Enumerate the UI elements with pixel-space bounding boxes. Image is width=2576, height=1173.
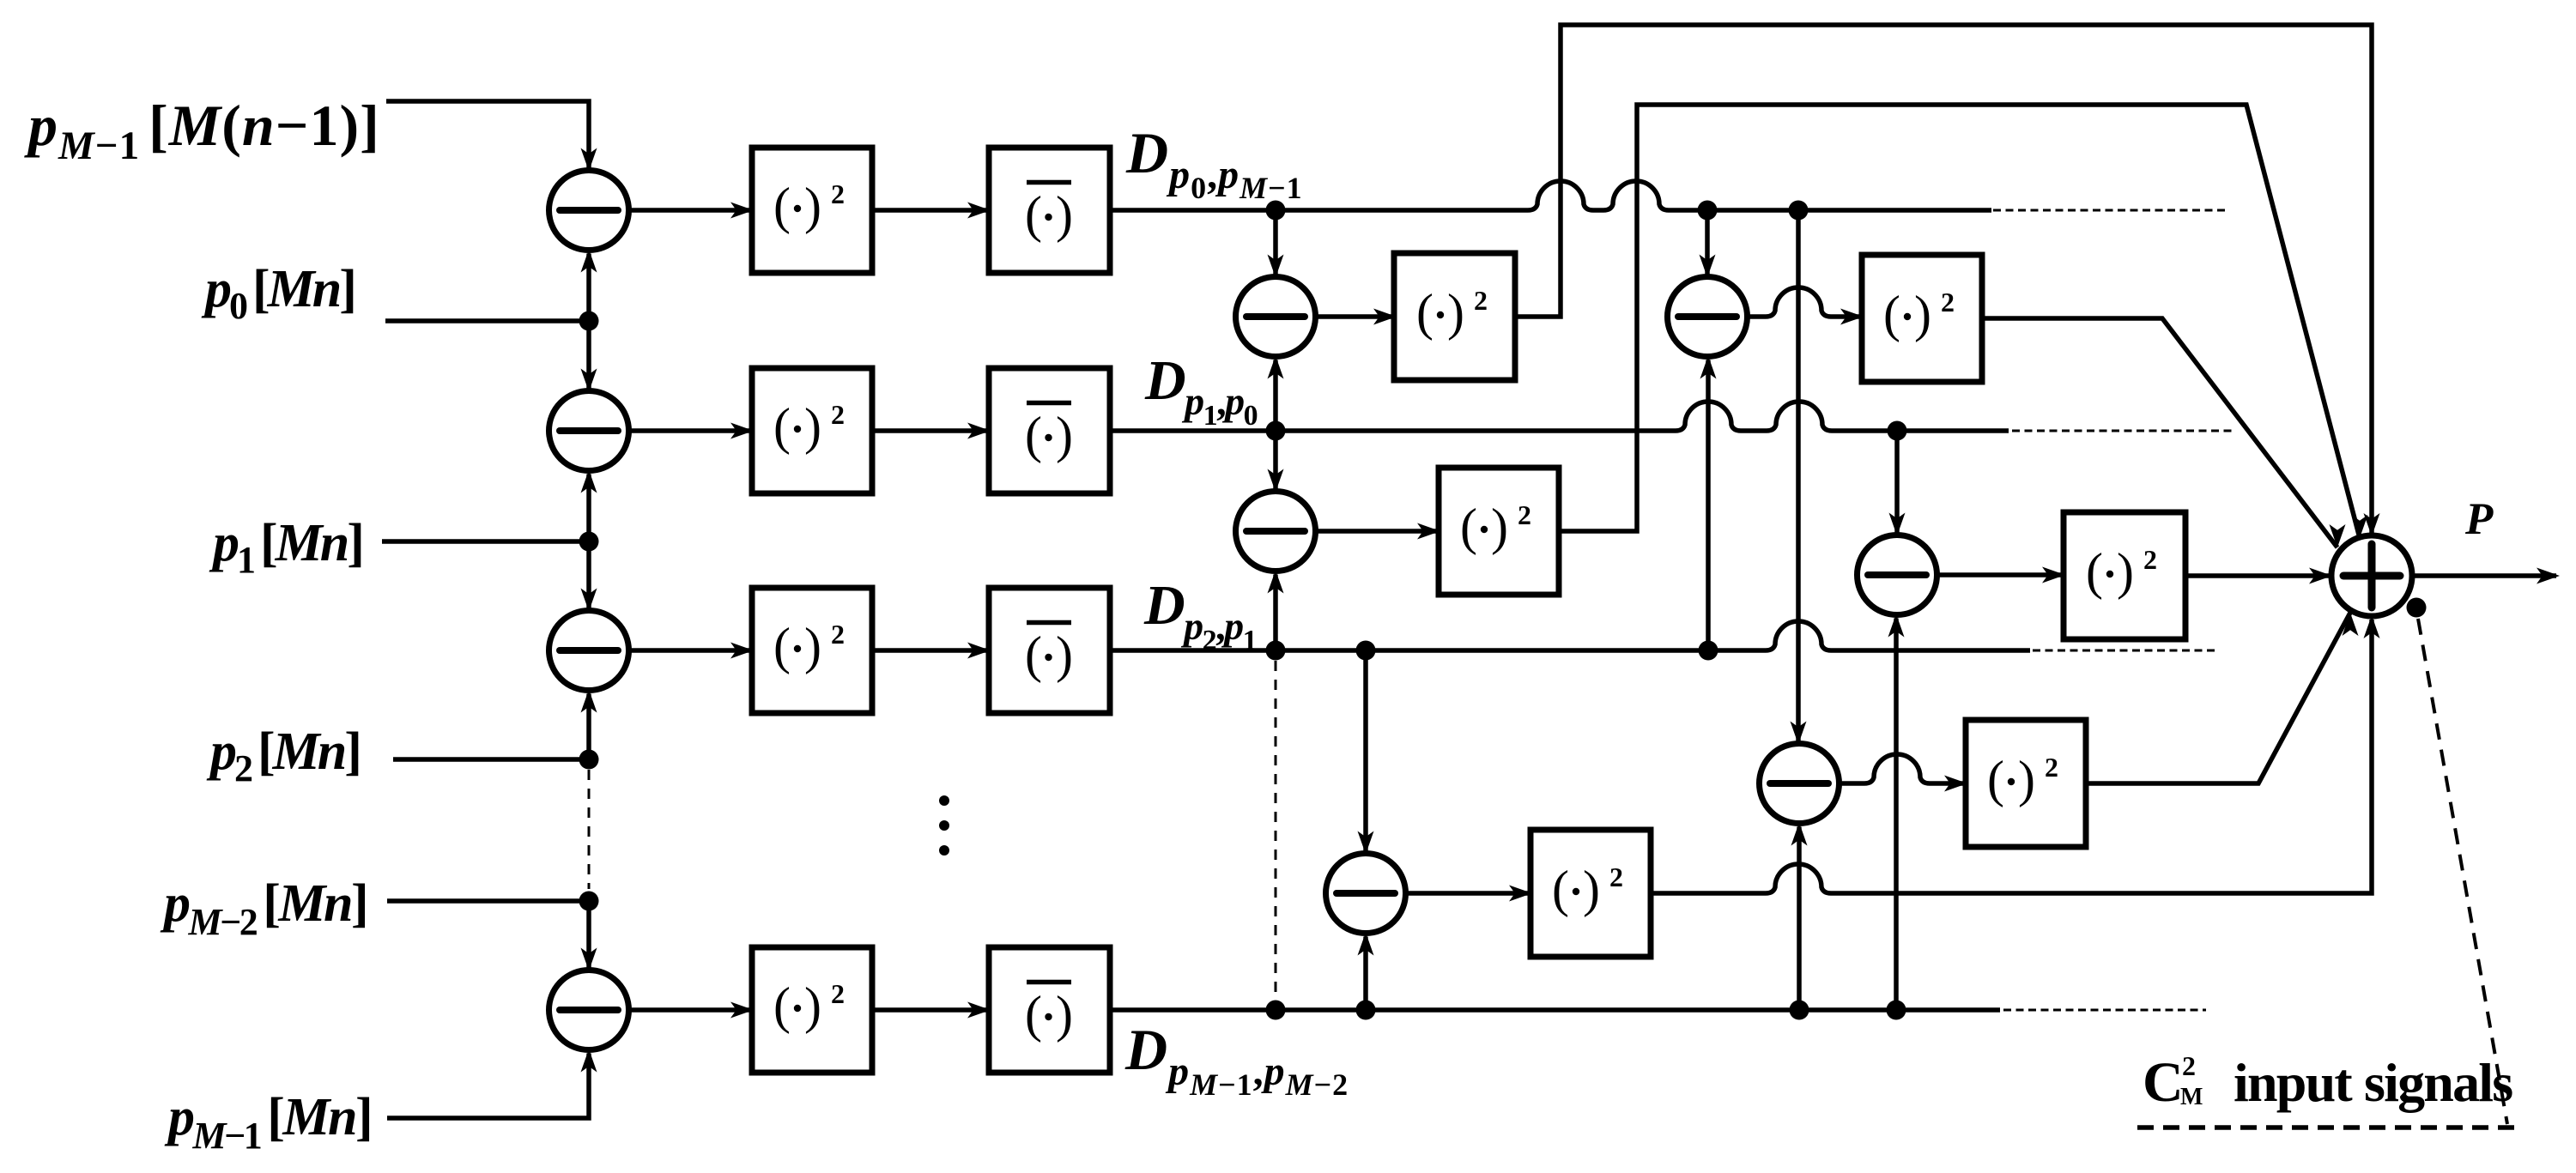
hop row1 over riser x1906 <box>1603 181 1669 210</box>
wire input p_1[Mn] <box>382 539 589 544</box>
node row4 dashed bus <box>1266 1001 1286 1020</box>
svg-text:(: ( <box>773 977 791 1034</box>
svg-text:p2[Mn]: p2[Mn] <box>206 723 360 789</box>
squarer block B10 <box>2064 512 2185 639</box>
wire row D_{p2,p1} dashed <box>2033 650 2216 652</box>
wire S7 out seg a <box>1748 314 1767 319</box>
wire B6 to line2 and diagonal to adder <box>1559 105 2360 538</box>
squarer block row 2 <box>752 368 872 493</box>
svg-text:(: ( <box>1460 499 1477 555</box>
wire row D_{p2,p1} seg b <box>1831 648 2030 653</box>
wire S7 out seg b <box>1831 314 1862 319</box>
svg-text:2: 2 <box>831 399 845 430</box>
svg-text:2: 2 <box>1941 287 1955 317</box>
wire dashed left bus <box>588 770 591 889</box>
squarer block row 3 <box>752 588 872 713</box>
svg-text:2: 2 <box>831 978 845 1009</box>
svg-text:2: 2 <box>2182 1050 2196 1081</box>
svg-text:2: 2 <box>1474 285 1488 316</box>
node row3 to S7 <box>1699 641 1718 661</box>
wire row2 to S5 <box>1273 360 1278 432</box>
wire S9 out seg a <box>1840 781 1865 786</box>
node row4 to S8 <box>1356 1001 1376 1020</box>
svg-text:(: ( <box>1883 286 1900 342</box>
subtractor S5 <box>1236 277 1316 357</box>
subtractor S10 <box>1858 535 1937 615</box>
dashed underline input-signals note <box>2137 1125 2515 1130</box>
subtractor S2 <box>549 391 629 471</box>
wire p_2 to S3 <box>586 694 591 760</box>
wire row4 to S9 <box>1797 827 1802 1011</box>
wire p_0 to S1 <box>586 254 591 322</box>
averager block row 4 <box>989 947 1110 1073</box>
node row4 to S10 <box>1887 1001 1906 1020</box>
wire row2 to S6 <box>1273 431 1278 490</box>
wire B10 to adder <box>2185 573 2330 578</box>
node row3 to S6 <box>1266 641 1286 661</box>
wire dashed mid bus <box>1275 661 1277 1000</box>
svg-text:): ) <box>804 178 821 234</box>
wire row D_{p0,pM-1} dashed <box>1993 209 2225 212</box>
wire squarer to averager row 4 <box>872 1007 989 1013</box>
svg-text:): ) <box>804 977 821 1034</box>
squarer block B6 <box>1439 468 1559 595</box>
wire input p_2[Mn] <box>393 757 589 762</box>
wire S8 to squarer B8 <box>1406 891 1531 896</box>
node p_0 junction <box>579 311 599 331</box>
subtractor S7 <box>1668 277 1748 357</box>
averager block row 2 <box>989 368 1110 493</box>
svg-text:): ) <box>1056 407 1073 463</box>
svg-text:(: ( <box>1552 861 1569 917</box>
svg-text:): ) <box>1491 499 1508 555</box>
wire S9 out seg b <box>1930 781 1966 786</box>
svg-text:(: ( <box>2086 543 2103 600</box>
svg-text:input: input <box>2234 1052 2353 1113</box>
squarer block B7 <box>1862 255 1982 382</box>
svg-text:p1[Mn]: p1[Mn] <box>209 514 362 581</box>
svg-text:M: M <box>2180 1084 2203 1110</box>
subtractor S6 <box>1236 492 1316 571</box>
node row2 to S10 <box>1888 421 1907 441</box>
wire row D_{p0,pM-1} seg c <box>1669 208 1991 213</box>
wire S3 to squarer <box>629 648 753 653</box>
svg-text:): ) <box>1447 284 1464 341</box>
subtractor S1 <box>549 171 629 251</box>
wire B9 diagonal to adder <box>2085 613 2350 783</box>
wire row D_{pM-1,pM-2} <box>1110 1007 2000 1013</box>
wire squarer to averager row 1 <box>872 208 989 213</box>
wire row1 riser to S9 <box>1796 210 1801 742</box>
svg-text:P: P <box>2464 494 2494 544</box>
squarer block B8 <box>1530 830 1651 957</box>
wire row D_{p0,pM-1} seg a <box>1110 208 1528 213</box>
svg-text:(: ( <box>1416 284 1433 341</box>
wire row2 to S10 <box>1894 431 1900 534</box>
squarer block B5 <box>1394 253 1515 380</box>
wire p_{M-2} to S4 <box>586 901 591 969</box>
wire input p_{M-1}[M(n-1)] <box>386 101 589 169</box>
svg-text:(: ( <box>1025 626 1042 683</box>
wire row D_{p1,p0} seg a <box>1110 428 1676 433</box>
subtractor S9 <box>1760 744 1840 824</box>
squarer block B9 <box>1966 720 2086 847</box>
node row3 to S8 <box>1356 641 1376 661</box>
wire input p_{M-1}[Mn] <box>387 1054 589 1119</box>
wire input p_{M-2}[Mn] <box>387 898 589 904</box>
squarer block row 4 <box>752 947 872 1073</box>
svg-text:2: 2 <box>2143 544 2157 575</box>
wire row4 riser to S10 <box>1894 619 1899 1011</box>
wire row D_{p0,pM-1} seg b <box>1593 208 1603 213</box>
hop row3 over riser x2095 <box>1766 621 1831 650</box>
node p_2 junction <box>579 750 599 770</box>
wire p_1 to S2 <box>586 475 591 542</box>
subtractor S8 <box>1326 854 1406 934</box>
svg-text:(: ( <box>1025 186 1042 243</box>
wire row4 to S8 <box>1363 937 1368 1011</box>
wire S5 to squarer B5 <box>1316 314 1396 319</box>
node row1 to S7 <box>1698 201 1718 221</box>
svg-text:(: ( <box>773 618 791 674</box>
node p_1 junction <box>579 532 599 552</box>
adder SUM <box>2331 535 2412 616</box>
wire B8 seg b to adder <box>1831 620 2372 893</box>
svg-text:2: 2 <box>831 178 845 209</box>
node p_{M-2} junction <box>579 892 599 911</box>
hop row2 over riser x2096 <box>1767 402 1832 431</box>
node row1 to S5 <box>1266 201 1286 221</box>
svg-text:): ) <box>1914 286 1931 342</box>
svg-text:signals: signals <box>2364 1052 2512 1113</box>
wire p_0 to S2 <box>586 321 591 390</box>
hop row1 over riser x1818 <box>1528 181 1593 210</box>
svg-text:): ) <box>2018 751 2035 807</box>
svg-text:(: ( <box>773 178 791 234</box>
wire row D_{p1,p0} dashed <box>2012 430 2234 432</box>
wire S1 to squarer <box>629 208 753 213</box>
svg-text:): ) <box>1583 861 1600 917</box>
wire row1 to S7 <box>1705 210 1710 275</box>
wire squarer to averager row 2 <box>872 428 989 433</box>
wire B7 diagonal to adder <box>1982 318 2337 547</box>
squarer block row 1 <box>752 148 872 273</box>
subtractor S4 <box>549 970 629 1050</box>
wire row3 to S6 <box>1273 575 1278 651</box>
wire S6 to squarer B6 <box>1316 529 1440 534</box>
svg-text:p0[Mn]: p0[Mn] <box>201 260 355 327</box>
svg-text:(: ( <box>1025 407 1042 463</box>
hop S7 out over riser x2095 <box>1766 287 1831 317</box>
wire output P <box>2412 573 2556 578</box>
svg-text:): ) <box>2117 543 2134 600</box>
hop B8 wire over riser x2095 <box>1766 864 1831 893</box>
svg-text:2: 2 <box>1518 499 1531 530</box>
svg-text:(: ( <box>773 398 791 455</box>
wire S2 to squarer <box>629 428 753 433</box>
wire S10 to B10 <box>1937 572 2064 577</box>
ellipsis dots <box>939 795 949 806</box>
wire row D_{pM-1,pM-2} dashed <box>2003 1009 2206 1012</box>
wire row D_{p1,p0} seg c <box>1832 428 2009 433</box>
wire row D_{p2,p1} seg a <box>1110 648 1766 653</box>
wire B5 to top line <box>1516 25 2372 534</box>
svg-text:(: ( <box>1987 751 2004 807</box>
dashed pointer to input-signals note <box>2418 619 2507 1124</box>
svg-text:): ) <box>1056 986 1073 1043</box>
subtractor S3 <box>549 611 629 691</box>
wire p_1 to S3 <box>586 541 591 609</box>
svg-text:): ) <box>804 398 821 455</box>
svg-text:): ) <box>804 618 821 674</box>
wire S4 to squarer <box>629 1007 753 1013</box>
hop S9 out over riser x2210 <box>1864 754 1930 783</box>
wire input p_0[Mn] <box>385 318 589 323</box>
wire row3 to S8 <box>1363 650 1368 852</box>
wire squarer to averager row 3 <box>872 648 989 653</box>
svg-text:): ) <box>1056 186 1073 243</box>
wire row1 to S5 <box>1273 210 1278 275</box>
svg-text:2: 2 <box>831 619 845 650</box>
node row2 to S5/S6 <box>1266 421 1286 441</box>
wire row3 riser to S7 <box>1706 360 1711 651</box>
node row1 to S9 <box>1789 201 1809 221</box>
averager block row 1 <box>989 148 1110 273</box>
hop row2 over riser x1990 <box>1676 402 1741 431</box>
wire B8 seg a <box>1651 891 1766 896</box>
svg-text:C: C <box>2143 1051 2184 1114</box>
node output tap <box>2407 598 2427 618</box>
averager block row 3 <box>989 588 1110 713</box>
wire row D_{p1,p0} seg b <box>1741 428 1767 433</box>
svg-text:(: ( <box>1025 986 1042 1043</box>
svg-text:2: 2 <box>2045 752 2058 783</box>
svg-text:2: 2 <box>1609 862 1623 892</box>
node row4 to S9 <box>1790 1001 1809 1020</box>
svg-text:): ) <box>1056 626 1073 683</box>
